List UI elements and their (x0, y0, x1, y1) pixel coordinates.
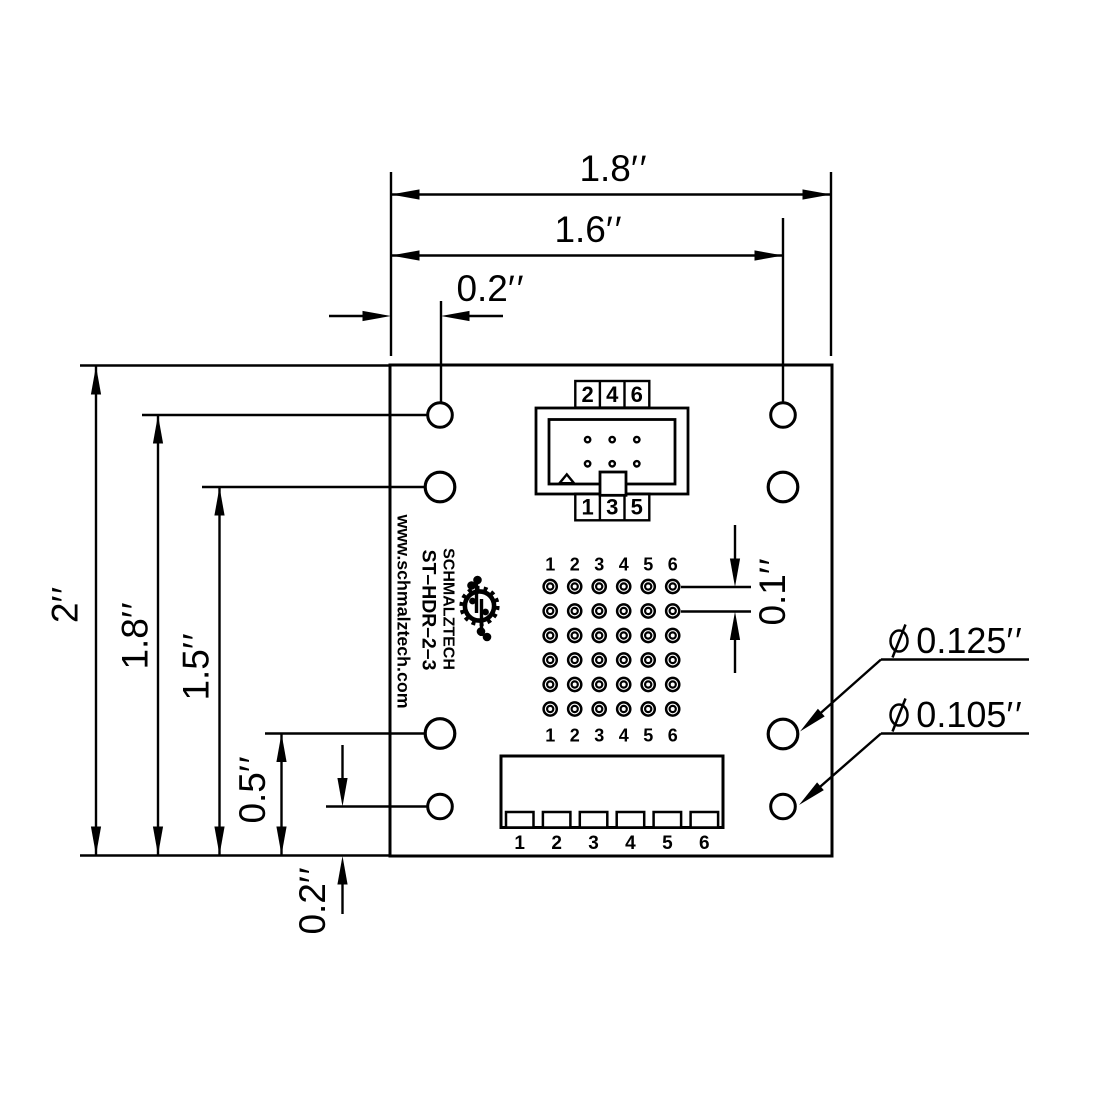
terminal block wire entry squares (506, 812, 718, 828)
svg-text:6: 6 (699, 833, 710, 854)
svg-text:2′′: 2′′ (45, 587, 86, 623)
svg-text:1: 1 (514, 833, 525, 854)
svg-text:6: 6 (668, 555, 678, 575)
svg-text:2: 2 (570, 726, 580, 746)
IDC connector J1 outer body (536, 408, 688, 494)
svg-text:2: 2 (551, 833, 562, 854)
prototyping grid column labels top 1-6 (545, 555, 678, 575)
svg-text:2: 2 (581, 382, 593, 407)
dimension 1.8 inch vertical hole spacing (115, 415, 435, 855)
svg-text:1.8′′: 1.8′′ (115, 602, 156, 669)
svg-text:5: 5 (662, 833, 673, 854)
mounting hole H5 (771, 403, 796, 428)
svg-text:ST–HDR–2–3: ST–HDR–2–3 (418, 550, 440, 671)
PCB board outline (390, 365, 832, 856)
dimension 0.2 inch hole offset from left edge (329, 268, 524, 409)
dimension 0.2 inch hole offset from bottom edge (292, 745, 434, 935)
SchmalzTech gear logo (462, 576, 498, 642)
dimension 1.6 inch hole spacing (391, 209, 783, 409)
svg-text:1.8′′: 1.8′′ (579, 148, 646, 189)
svg-text:1: 1 (581, 495, 593, 520)
prototyping grid column labels bottom 1-6 (545, 726, 678, 746)
svg-text:0.105′′: 0.105′′ (916, 694, 1022, 735)
IDC pin 1 triangle marker (560, 474, 575, 483)
dimension 0.5 inch vertical hole spacing (232, 734, 434, 856)
svg-text:6: 6 (668, 726, 678, 746)
dimension 1.5 inch vertical hole spacing (176, 487, 435, 855)
svg-text:3: 3 (594, 555, 604, 575)
mounting hole H8 (771, 794, 796, 819)
mounting hole H2 (425, 472, 455, 502)
svg-text:6: 6 (631, 382, 643, 407)
svg-text:4: 4 (619, 726, 629, 746)
svg-text:4: 4 (625, 833, 636, 854)
prototyping grid 6x6 plated through holes (544, 580, 680, 716)
dimension 1.8 inch overall width (391, 148, 831, 356)
mounting hole H6 (768, 472, 798, 502)
svg-text:1: 1 (545, 726, 555, 746)
dimension 0.1 inch grid pitch (681, 525, 793, 673)
svg-text:1: 1 (545, 555, 555, 575)
IDC pin number header 2 4 6 (575, 381, 649, 408)
IDC connector pins (585, 437, 640, 467)
mounting hole H1 (428, 403, 453, 428)
IDC connector J1 inner shroud (549, 420, 675, 485)
IDC polarization key notch (600, 472, 626, 495)
mounting hole H7 (768, 719, 798, 749)
IDC pin number footer 1 3 5 (575, 494, 649, 521)
svg-text:0.5′′: 0.5′′ (232, 756, 273, 823)
svg-text:0.125′′: 0.125′′ (916, 620, 1022, 661)
svg-text:4: 4 (619, 555, 629, 575)
svg-text:5: 5 (643, 555, 653, 575)
leader label hole diameter 0.125 inch (800, 620, 1029, 732)
terminal block TB1 body (501, 756, 723, 828)
svg-text:0.1′′: 0.1′′ (752, 558, 793, 625)
svg-text:2: 2 (570, 555, 580, 575)
svg-text:www.schmalztech.com: www.schmalztech.com (394, 513, 414, 708)
svg-text:1.5′′: 1.5′′ (176, 633, 217, 700)
svg-text:3: 3 (594, 726, 604, 746)
svg-text:3: 3 (606, 495, 618, 520)
svg-text:4: 4 (606, 382, 619, 407)
leader label hole diameter 0.105 inch (799, 694, 1029, 805)
svg-text:0.2′′: 0.2′′ (456, 268, 523, 309)
svg-text:SCHMALZTECH: SCHMALZTECH (440, 548, 457, 670)
mounting hole H4 (428, 794, 453, 819)
svg-text:5: 5 (643, 726, 653, 746)
dimension 2 inch overall height (45, 366, 390, 856)
svg-text:1.6′′: 1.6′′ (554, 209, 621, 250)
svg-text:3: 3 (588, 833, 599, 854)
mounting hole H3 (425, 719, 455, 749)
svg-text:5: 5 (631, 495, 643, 520)
terminal block labels 1-6 (514, 833, 709, 854)
svg-text:0.2′′: 0.2′′ (292, 867, 333, 934)
